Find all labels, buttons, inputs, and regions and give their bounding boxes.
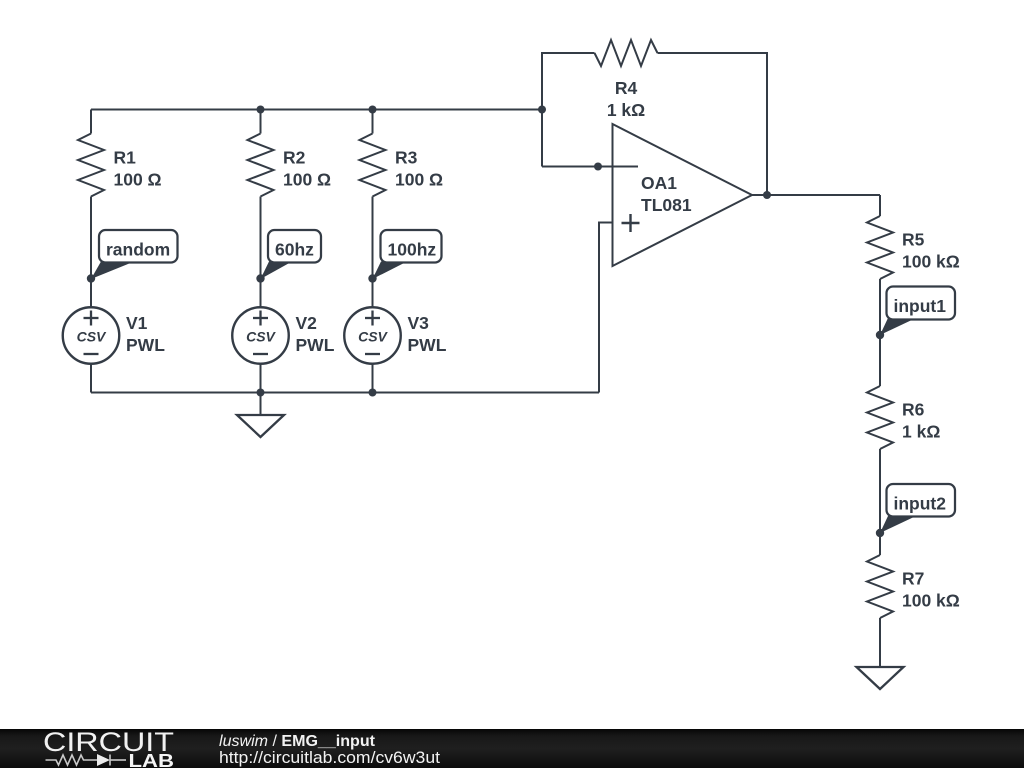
svg-text:V1: V1 [126, 313, 148, 333]
node bottom rail V3 [369, 389, 377, 397]
svg-text:100 kΩ: 100 kΩ [902, 591, 960, 611]
svg-text:100 Ω: 100 Ω [283, 170, 331, 190]
svg-text:V3: V3 [408, 313, 430, 333]
wire to non-inverting input [599, 223, 613, 393]
CSV source glyphs [77, 329, 389, 345]
flag 100hz [368, 230, 441, 283]
svg-text:R3: R3 [395, 148, 418, 168]
voltage source V3 [344, 307, 401, 364]
svg-text:PWL: PWL [126, 335, 165, 355]
ground right [857, 667, 904, 689]
op-amp plus sign [622, 222, 640, 224]
wire R5 to R6 [879, 279, 881, 386]
svg-text:PWL: PWL [408, 335, 447, 355]
svg-text:CSV: CSV [358, 329, 388, 345]
svg-text:R1: R1 [114, 148, 137, 168]
resistor R2 [248, 134, 274, 197]
svg-text:input1: input1 [894, 296, 947, 316]
svg-text:60hz: 60hz [275, 240, 314, 260]
svg-text:R5: R5 [902, 230, 925, 250]
flag 60hz [256, 230, 321, 283]
wire R2 top lead [260, 110, 262, 134]
svg-text:V2: V2 [296, 313, 318, 333]
wire R1 to V1 [90, 197, 92, 308]
resistor R5 [867, 216, 893, 279]
svg-text:PWL: PWL [296, 335, 335, 355]
svg-text:100 Ω: 100 Ω [114, 170, 162, 190]
svg-text:random: random [106, 240, 170, 260]
wire top rail [91, 109, 542, 111]
svg-text:LAB: LAB [129, 750, 175, 768]
resistor R1 [78, 134, 104, 197]
svg-text:CSV: CSV [77, 329, 107, 345]
svg-text:CSV: CSV [246, 329, 276, 345]
node top rail R3 [369, 106, 377, 114]
wire R7 to ground [879, 618, 881, 667]
resistor R4 [595, 40, 658, 66]
wire R6 to R7 [879, 449, 881, 555]
footer bar [0, 729, 1024, 768]
wire R1 top lead [90, 110, 92, 134]
svg-text:R2: R2 [283, 148, 306, 168]
wire R5 top lead [879, 195, 881, 216]
wire V3 bottom [372, 364, 374, 393]
ground left [237, 415, 284, 437]
op-amp OA1 [613, 124, 753, 266]
wire R3 top lead [372, 110, 374, 134]
wire inverting input [542, 166, 638, 168]
svg-text:R4: R4 [615, 78, 638, 98]
junction dots [257, 106, 772, 397]
wire feedback right [658, 53, 768, 195]
node bottom rail ground [257, 389, 265, 397]
node output [763, 191, 771, 199]
svg-text:100hz: 100hz [388, 240, 437, 260]
node feedback junction [538, 106, 546, 114]
resistor R7 [867, 555, 893, 618]
svg-text:OA1: OA1 [641, 173, 677, 193]
node inverting input [594, 163, 602, 171]
wire V1 bottom [90, 364, 92, 393]
flag random [87, 230, 178, 283]
svg-text:R6: R6 [902, 400, 925, 420]
wire output [752, 194, 880, 196]
svg-text:100 Ω: 100 Ω [395, 170, 443, 190]
wire V2 bottom [260, 364, 262, 393]
wire feedback left vertical [542, 53, 595, 167]
wire R3 to V3 [372, 197, 374, 308]
resistor R3 [360, 134, 386, 197]
voltage source V2 [232, 307, 289, 364]
ground left stub [260, 393, 262, 416]
resistor R6 [867, 386, 893, 449]
voltage source V1 [63, 307, 120, 364]
svg-text:1 kΩ: 1 kΩ [607, 100, 645, 120]
svg-text:TL081: TL081 [641, 195, 692, 215]
svg-text:http://circuitlab.com/cv6w3ut: http://circuitlab.com/cv6w3ut [219, 748, 440, 767]
svg-text:R7: R7 [902, 569, 924, 589]
logo resistor-diode glyph [46, 754, 127, 766]
svg-text:input2: input2 [894, 494, 947, 514]
svg-text:1 kΩ: 1 kΩ [902, 422, 940, 442]
node top rail R2 [257, 106, 265, 114]
flag input2 [876, 484, 955, 537]
flag input1 [876, 287, 955, 340]
wire bottom rail [91, 392, 599, 394]
wire R2 to V2 [260, 197, 262, 308]
svg-text:100 kΩ: 100 kΩ [902, 252, 960, 272]
